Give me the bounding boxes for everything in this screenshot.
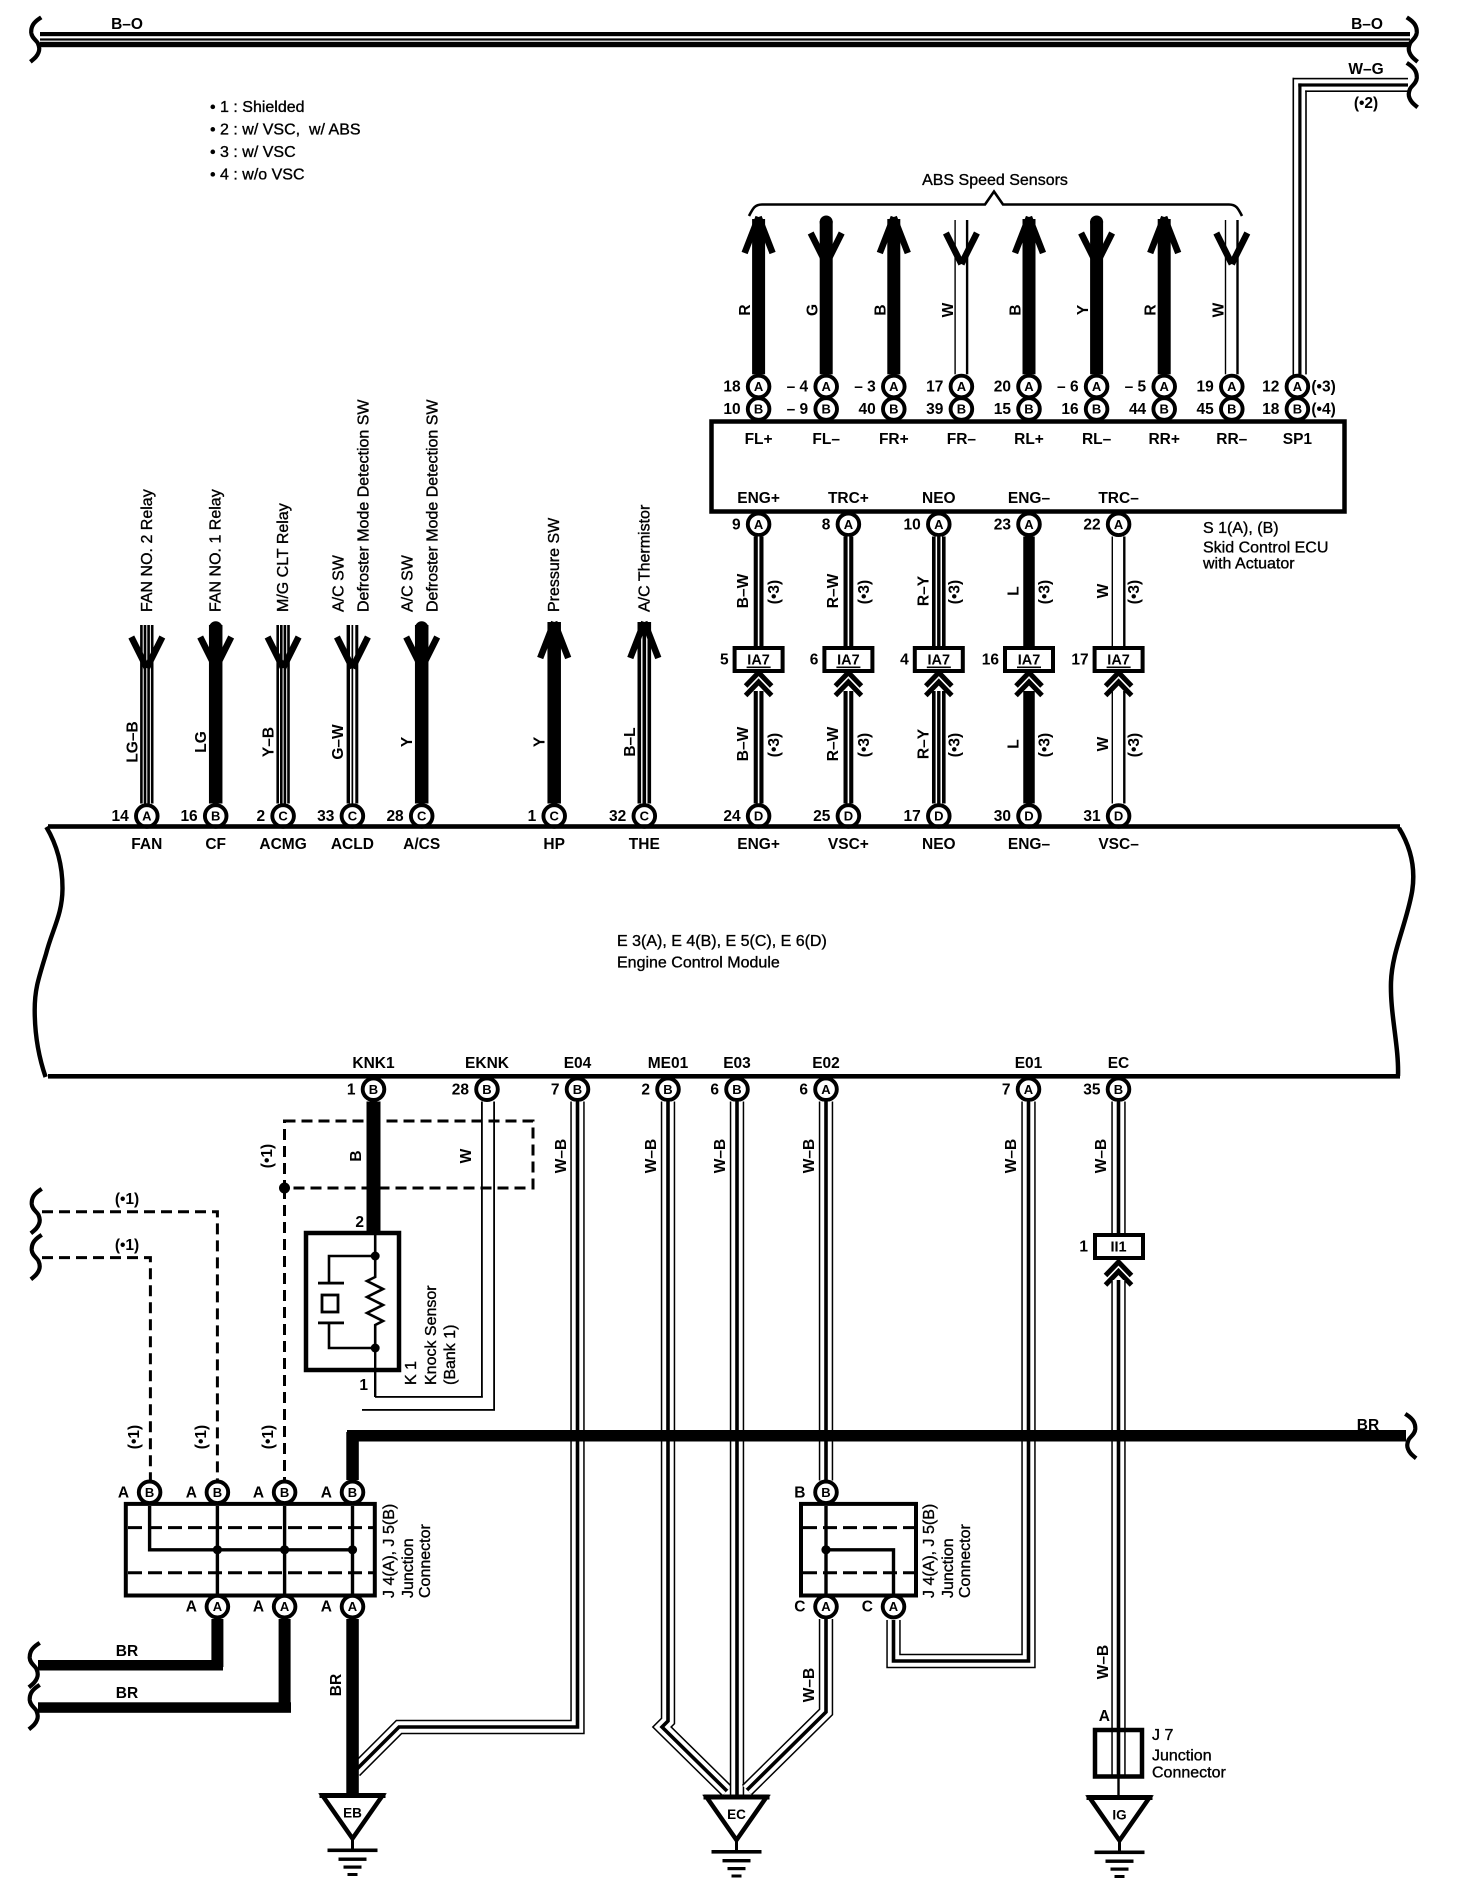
pin 10(B) of skid control ECU col FL+	[723, 398, 769, 420]
svg-text:B–O: B–O	[1351, 16, 1383, 33]
svg-text:A: A	[821, 1082, 831, 1097]
label THE ECM	[629, 836, 660, 853]
label VSC&#8211; ECM	[1098, 836, 1139, 853]
svg-text:A: A	[1024, 379, 1034, 394]
svg-text:– 6: – 6	[1057, 379, 1079, 396]
pin 31(D) ECM top	[1083, 805, 1129, 827]
pin -5(A) of skid control ECU col RR+	[1125, 376, 1175, 398]
pin A(A) junction1 bottom	[321, 1596, 364, 1618]
pin A(A) junction1 bottom	[186, 1596, 229, 1618]
svg-text:A: A	[186, 1484, 197, 1501]
pin 14(A) ECM top FAN	[112, 805, 158, 827]
label HP ECM	[543, 836, 565, 853]
svg-text:ENG+: ENG+	[737, 836, 780, 853]
svg-text:EKNK: EKNK	[465, 1055, 510, 1072]
wire BR to EB ground	[328, 1619, 359, 1795]
wire W-B from E03 to EC ground	[712, 1102, 737, 1796]
svg-text:A: A	[1160, 379, 1170, 394]
pin -6(A) of skid control ECU col RL&#8211;	[1057, 376, 1107, 398]
svg-text:A: A	[934, 517, 944, 532]
svg-text:ENG–: ENG–	[1008, 490, 1051, 507]
wire ABS sensor FL&#8211; (G)	[805, 216, 842, 375]
pin 1(C) ECM top HP	[528, 805, 565, 827]
svg-text:W–B: W–B	[1093, 1139, 1110, 1173]
pin 9(A) skid ECU bottom	[732, 514, 769, 536]
chevron junction arrow	[835, 673, 861, 696]
svg-text:A/CS: A/CS	[403, 836, 440, 853]
wire L upper segment	[1006, 537, 1054, 649]
svg-text:RR+: RR+	[1148, 431, 1179, 448]
svg-text:Skid Control ECU: Skid Control ECU	[1203, 540, 1328, 557]
svg-text:30: 30	[994, 808, 1011, 825]
svg-text:39: 39	[926, 401, 944, 418]
svg-text:A: A	[280, 1599, 290, 1614]
wire R&#8211;Y lower segment	[915, 691, 963, 804]
svg-text:R–W: R–W	[825, 573, 842, 608]
svg-text:B–O: B–O	[111, 16, 143, 33]
svg-text:C: C	[550, 809, 560, 824]
dashed wire (*1) A	[32, 1190, 218, 1480]
pin 20(A) of skid control ECU col RL+	[994, 376, 1040, 398]
node (*2) label	[1354, 95, 1378, 112]
pin A(B) junction1 col1	[118, 1482, 161, 1504]
wire Y&#8211;B from M/G CLT Relay	[261, 503, 299, 803]
svg-text:BR: BR	[116, 1685, 138, 1702]
svg-text:W–B: W–B	[1095, 1645, 1112, 1679]
svg-text:B: B	[573, 1082, 582, 1097]
engine control module box	[35, 824, 1414, 1078]
svg-text:FR+: FR+	[879, 431, 909, 448]
svg-text:E 3(A), E 4(B), E 5(C), E 6(D): E 3(A), E 4(B), E 5(C), E 6(D)	[617, 933, 827, 950]
pin 22(A) skid ECU bottom	[1083, 514, 1129, 536]
svg-text:B: B	[889, 402, 898, 417]
svg-text:EC: EC	[727, 1807, 746, 1822]
pin B(B) junction2	[794, 1482, 837, 1504]
svg-text:K 1: K 1	[403, 1361, 420, 1385]
svg-text:Junction: Junction	[1152, 1748, 1212, 1765]
wire ABS sensor FR+ (B)	[872, 217, 908, 374]
connector IA7 pin 5	[720, 648, 783, 671]
svg-text:18: 18	[723, 379, 741, 396]
svg-text:CF: CF	[205, 836, 226, 853]
svg-text:• 4 : w/o VSC: • 4 : w/o VSC	[210, 167, 305, 184]
break symbol bus right	[1409, 19, 1417, 61]
wire ABS sensor RL&#8211; (Y)	[1075, 216, 1112, 375]
svg-text:20: 20	[994, 379, 1011, 396]
wire W-G vertical to SP1	[1293, 78, 1307, 375]
wire ABS sensor FL+ (R)	[737, 217, 773, 374]
label CF ECM	[205, 836, 226, 853]
label FL+ inside ECU	[745, 431, 773, 448]
label J4(A) J5(B) Junction Connector right	[921, 1504, 974, 1598]
wire Y from A/C SW	[399, 399, 442, 804]
svg-text:IA7: IA7	[1018, 653, 1041, 669]
svg-text:IG: IG	[1112, 1808, 1126, 1823]
svg-text:W: W	[940, 302, 957, 317]
junction connector J4(A) J5(B) right box	[801, 1504, 916, 1596]
svg-text:17: 17	[926, 379, 943, 396]
svg-text:10: 10	[904, 517, 921, 534]
knock sensor K1 (Bank 1)	[306, 1233, 399, 1397]
svg-text:B: B	[663, 1082, 672, 1097]
svg-text:J 4(A), J 5(B): J 4(A), J 5(B)	[381, 1504, 398, 1598]
svg-text:(•3): (•3)	[946, 733, 963, 757]
svg-text:24: 24	[723, 808, 741, 825]
svg-text:7: 7	[1002, 1081, 1011, 1098]
svg-text:17: 17	[1071, 652, 1088, 669]
svg-text:A: A	[321, 1599, 332, 1616]
svg-text:31: 31	[1083, 808, 1101, 825]
pin A(B) junction1 col3	[253, 1482, 296, 1504]
svg-text:(•2): (•2)	[1354, 95, 1378, 112]
pin 33(C) ECM top ACLD	[317, 805, 363, 827]
svg-text:Defroster Mode Detection SW: Defroster Mode Detection SW	[355, 399, 372, 612]
svg-text:B: B	[1092, 402, 1101, 417]
label TRC&#8211; inside ECU	[1098, 490, 1139, 507]
wire W lower segment	[1095, 691, 1143, 804]
label RR+ inside ECU	[1148, 431, 1179, 448]
svg-text:L: L	[1006, 739, 1023, 748]
wire B&#8211;W lower segment	[735, 691, 783, 804]
svg-text:– 4: – 4	[787, 379, 809, 396]
svg-text:(•1): (•1)	[115, 1237, 139, 1254]
svg-text:ACMG: ACMG	[259, 836, 306, 853]
svg-text:C: C	[862, 1599, 873, 1616]
break symbol bus left	[31, 19, 39, 61]
wire bus B-O top	[40, 32, 1410, 47]
svg-text:2: 2	[355, 1214, 364, 1231]
svg-text:J 4(A), J 5(B): J 4(A), J 5(B)	[921, 1504, 938, 1598]
svg-text:B–W: B–W	[735, 573, 752, 608]
svg-text:R: R	[737, 304, 754, 315]
pin 10(A) skid ECU bottom	[904, 514, 950, 536]
wire B&#8211;L from A/C Thermistor	[622, 504, 659, 803]
svg-text:B: B	[822, 402, 831, 417]
wire W-B junction2 to EC ground	[747, 1619, 826, 1790]
svg-text:B: B	[211, 809, 220, 824]
svg-text:D: D	[934, 809, 943, 824]
connector II1 pin 1	[1079, 1235, 1143, 1258]
wire R&#8211;W lower segment	[825, 691, 873, 804]
pin 24(D) ECM top	[723, 805, 769, 827]
svg-text:FL+: FL+	[745, 431, 773, 448]
svg-text:E01: E01	[1015, 1055, 1043, 1072]
svg-text:7: 7	[551, 1081, 560, 1098]
svg-text:10: 10	[723, 401, 740, 418]
svg-text:E02: E02	[812, 1055, 840, 1072]
svg-text:IA7: IA7	[837, 653, 860, 669]
svg-text:C: C	[417, 809, 427, 824]
svg-text:(•3): (•3)	[856, 580, 873, 604]
svg-text:33: 33	[317, 808, 335, 825]
wire BR stub 2	[30, 1619, 291, 1728]
svg-text:LG: LG	[193, 731, 210, 753]
pin 32(C) ECM top THE	[609, 805, 655, 827]
svg-text:B: B	[794, 1484, 805, 1501]
label J4(A) J5(B) Junction Connector left	[381, 1504, 434, 1598]
wire W EKNK to knock sensor pin 1	[362, 1102, 495, 1411]
pin 25(D) ECM top	[813, 805, 859, 827]
pin 45(B) of skid control ECU col RR&#8211;	[1197, 398, 1243, 420]
label E3(A) E4(B) E5(C) E6(D) Engine Control Module	[617, 933, 827, 972]
svg-text:ACLD: ACLD	[331, 836, 374, 853]
svg-text:FAN NO. 1 Relay: FAN NO. 1 Relay	[208, 489, 225, 612]
svg-text:D: D	[1114, 809, 1123, 824]
wire W-B from EC to II1	[1093, 1102, 1119, 1236]
pin 35(B) ECM bottom EC	[1083, 1078, 1129, 1100]
svg-text:NEO: NEO	[922, 490, 956, 507]
svg-text:• 1 : Shielded: • 1 : Shielded	[210, 99, 305, 116]
legend note 1 Shielded	[210, 99, 305, 116]
svg-text:S 1(A), (B): S 1(A), (B)	[1203, 520, 1279, 537]
svg-text:(•1): (•1)	[260, 1425, 277, 1449]
pin A(B) junction1 col2	[186, 1482, 229, 1504]
junction connector J4(A) J5(B) left box	[126, 1504, 375, 1596]
svg-text:Y: Y	[1075, 304, 1092, 315]
svg-text:EC: EC	[1108, 1055, 1130, 1072]
label ENG+ inside ECU	[737, 490, 780, 507]
svg-text:(•3): (•3)	[766, 580, 783, 604]
svg-text:W–G: W–G	[1348, 61, 1383, 78]
svg-text:IA7: IA7	[928, 653, 951, 669]
svg-text:II1: II1	[1110, 1240, 1126, 1256]
break symbol W-G	[1409, 64, 1417, 106]
pin 8(A) skid ECU bottom	[822, 514, 859, 536]
svg-text:A: A	[1024, 517, 1034, 532]
svg-text:A: A	[754, 379, 764, 394]
wire ABS sensor FR&#8211; (W)	[940, 220, 977, 374]
svg-text:B: B	[1227, 402, 1236, 417]
svg-text:4: 4	[900, 652, 909, 669]
svg-text:25: 25	[813, 808, 831, 825]
svg-text:B: B	[280, 1485, 289, 1500]
svg-text:12: 12	[1262, 379, 1279, 396]
connector IA7 pin 17	[1071, 648, 1142, 671]
svg-text:• 2 : w/ VSC, w/ ABS: • 2 : w/ VSC, w/ ABS	[210, 122, 361, 139]
svg-text:(•1): (•1)	[193, 1425, 210, 1449]
chevron junction arrow	[926, 673, 952, 696]
svg-text:B: B	[1024, 402, 1033, 417]
label ACLD ECM	[331, 836, 374, 853]
svg-text:HP: HP	[543, 836, 565, 853]
wire B&#8211;W upper segment	[735, 537, 783, 649]
shielded cable dashed box (*1)	[259, 1121, 533, 1194]
wire LG from FAN NO. 1 Relay	[193, 489, 231, 803]
svg-text:TRC+: TRC+	[828, 490, 869, 507]
wire W-B from II1 to J7	[1095, 1280, 1119, 1776]
svg-text:A/C Thermistor: A/C Thermistor	[636, 504, 653, 612]
svg-text:Pressure SW: Pressure SW	[546, 517, 563, 612]
svg-text:W: W	[458, 1148, 475, 1163]
label FAN ECM	[131, 836, 162, 853]
svg-text:A: A	[186, 1599, 197, 1616]
svg-text:SP1: SP1	[1283, 431, 1313, 448]
svg-text:W: W	[1095, 583, 1112, 598]
pin 15(B) of skid control ECU col RL+	[994, 398, 1040, 420]
svg-text:R–Y: R–Y	[915, 728, 932, 759]
svg-text:A: A	[844, 517, 854, 532]
svg-text:W–B: W–B	[712, 1139, 729, 1173]
svg-text:RL–: RL–	[1082, 431, 1112, 448]
svg-text:KNK1: KNK1	[352, 1055, 395, 1072]
svg-text:A: A	[889, 1599, 899, 1614]
svg-text:J 7: J 7	[1152, 1727, 1173, 1744]
label EKNK ECM bottom	[465, 1055, 510, 1072]
label E01 ECM bottom	[1015, 1055, 1043, 1072]
ground EC	[704, 1797, 770, 1878]
svg-text:VSC+: VSC+	[828, 836, 869, 853]
label ACMG ECM	[259, 836, 306, 853]
svg-text:R–W: R–W	[825, 726, 842, 761]
svg-text:B: B	[1008, 304, 1025, 315]
svg-text:A: A	[1293, 379, 1303, 394]
svg-text:18: 18	[1262, 401, 1280, 418]
svg-text:B: B	[754, 402, 763, 417]
svg-text:Junction: Junction	[940, 1538, 957, 1598]
svg-text:(•3): (•3)	[1126, 733, 1143, 757]
pin 18(B) SP1	[1262, 398, 1336, 420]
connector IA7 pin 6	[810, 648, 873, 671]
svg-text:Y–B: Y–B	[261, 727, 278, 757]
pin 44(B) of skid control ECU col RR+	[1129, 398, 1175, 420]
pin 23(A) skid ECU bottom	[994, 514, 1040, 536]
label S1 Skid Control ECU with Actuator	[1202, 520, 1328, 573]
svg-text:A: A	[321, 1484, 332, 1501]
chevron junction arrow	[1016, 673, 1042, 696]
svg-text:R–Y: R–Y	[915, 575, 932, 606]
pin 7(A) ECM bottom E01	[1002, 1078, 1039, 1100]
svg-text:A: A	[142, 809, 152, 824]
svg-text:B–W: B–W	[735, 726, 752, 761]
wire W upper segment	[1095, 537, 1143, 649]
svg-text:THE: THE	[629, 836, 660, 853]
legend note 3 w/ VSC	[210, 144, 296, 161]
label TRC+ inside ECU	[828, 490, 869, 507]
svg-text:A: A	[1092, 379, 1102, 394]
wire W-B from E01 to junction connector	[894, 1102, 1029, 1662]
svg-text:B: B	[821, 1485, 830, 1500]
svg-text:G: G	[805, 304, 822, 316]
svg-text:(•3): (•3)	[1037, 733, 1054, 757]
svg-text:2: 2	[256, 808, 265, 825]
svg-text:• 3 : w/ VSC: • 3 : w/ VSC	[210, 144, 296, 161]
svg-text:FAN: FAN	[131, 836, 162, 853]
svg-text:Y: Y	[532, 736, 549, 747]
pin 17(A) of skid control ECU col FR&#8211;	[926, 376, 972, 398]
svg-text:A: A	[1227, 379, 1237, 394]
svg-text:BR: BR	[116, 1643, 138, 1660]
svg-text:A: A	[1114, 517, 1124, 532]
svg-text:A: A	[822, 379, 832, 394]
svg-text:35: 35	[1083, 1081, 1101, 1098]
pin -3(A) of skid control ECU col FR+	[854, 376, 904, 398]
svg-text:28: 28	[386, 808, 404, 825]
svg-text:B: B	[145, 1485, 154, 1500]
label A/CS ECM	[403, 836, 440, 853]
label SP1 inside ECU	[1283, 431, 1313, 448]
svg-text:(Bank 1): (Bank 1)	[442, 1325, 459, 1385]
svg-text:G–W: G–W	[330, 724, 347, 760]
pin 6(B) ECM bottom E03	[710, 1078, 747, 1100]
svg-text:A: A	[957, 379, 967, 394]
pin 19(A) of skid control ECU col RR&#8211;	[1197, 376, 1243, 398]
pin C(A) junction2 bottom 1	[794, 1596, 837, 1618]
svg-text:(•3): (•3)	[766, 733, 783, 757]
svg-text:A/C SW: A/C SW	[330, 554, 347, 612]
pin A(A) junction1 bottom	[253, 1596, 296, 1618]
svg-text:B: B	[213, 1485, 222, 1500]
svg-text:A: A	[253, 1484, 264, 1501]
svg-text:(•3): (•3)	[856, 733, 873, 757]
svg-text:BR: BR	[328, 1674, 345, 1696]
chevron junction arrow	[1106, 673, 1132, 696]
svg-text:A: A	[754, 517, 764, 532]
svg-text:BR: BR	[1357, 1417, 1379, 1434]
connector IA7 pin 16	[982, 648, 1053, 671]
pin 16(B) ECM top CF	[180, 805, 226, 827]
label FR&#8211; inside ECU	[947, 431, 977, 448]
pin 7(B) ECM bottom E04	[551, 1078, 588, 1100]
svg-text:B: B	[348, 1485, 357, 1500]
pin 28(B) ECM bottom EKNK	[452, 1078, 498, 1100]
pin 6(A) ECM bottom E02	[799, 1078, 836, 1100]
wire R&#8211;Y upper segment	[915, 537, 963, 649]
svg-text:A/C SW: A/C SW	[400, 554, 417, 612]
svg-text:A: A	[253, 1599, 264, 1616]
svg-text:B–L: B–L	[622, 727, 639, 756]
label E03 ECM bottom	[723, 1055, 751, 1072]
svg-text:A: A	[889, 379, 899, 394]
pin -9(B) of skid control ECU col FL&#8211;	[787, 398, 837, 420]
svg-text:B: B	[482, 1082, 491, 1097]
svg-text:(•4): (•4)	[1311, 401, 1335, 418]
svg-text:W–B: W–B	[801, 1668, 818, 1702]
svg-text:19: 19	[1197, 379, 1215, 396]
svg-text:Y: Y	[399, 736, 416, 747]
svg-text:C: C	[348, 809, 358, 824]
svg-text:B: B	[732, 1082, 741, 1097]
label NEO ECM	[922, 836, 956, 853]
svg-text:A: A	[821, 1599, 831, 1614]
svg-text:W: W	[1095, 736, 1112, 751]
pin -4(A) of skid control ECU col FL&#8211;	[787, 376, 837, 398]
label EC ECM bottom	[1108, 1055, 1130, 1072]
svg-text:D: D	[1024, 809, 1033, 824]
wire W-G horizontal	[1293, 78, 1409, 92]
svg-text:ENG+: ENG+	[737, 490, 780, 507]
svg-text:ABS Speed Sensors: ABS Speed Sensors	[922, 172, 1068, 189]
svg-text:Connector: Connector	[957, 1524, 974, 1598]
ground EB	[320, 1796, 386, 1877]
svg-text:RR–: RR–	[1216, 431, 1247, 448]
svg-text:23: 23	[994, 517, 1012, 534]
label FL&#8211; inside ECU	[812, 431, 840, 448]
chevron junction arrow	[746, 673, 772, 696]
svg-text:M/G CLT Relay: M/G CLT Relay	[275, 503, 292, 612]
svg-text:C: C	[278, 809, 288, 824]
pin 40(B) of skid control ECU col FR+	[859, 398, 905, 420]
label RL+ inside ECU	[1014, 431, 1044, 448]
svg-text:Connector: Connector	[1152, 1765, 1226, 1782]
wire ABS sensor RR&#8211; (W)	[1210, 220, 1247, 374]
wire Y from Pressure SW	[532, 517, 569, 804]
pin 1(B) ECM bottom KNK1	[347, 1078, 384, 1100]
svg-text:5: 5	[720, 652, 729, 669]
svg-text:1: 1	[528, 808, 537, 825]
svg-text:FAN NO. 2 Relay: FAN NO. 2 Relay	[139, 489, 156, 612]
label K1 Knock Sensor (Bank 1)	[403, 1285, 459, 1385]
wire BR main horizontal	[346, 1415, 1415, 1480]
